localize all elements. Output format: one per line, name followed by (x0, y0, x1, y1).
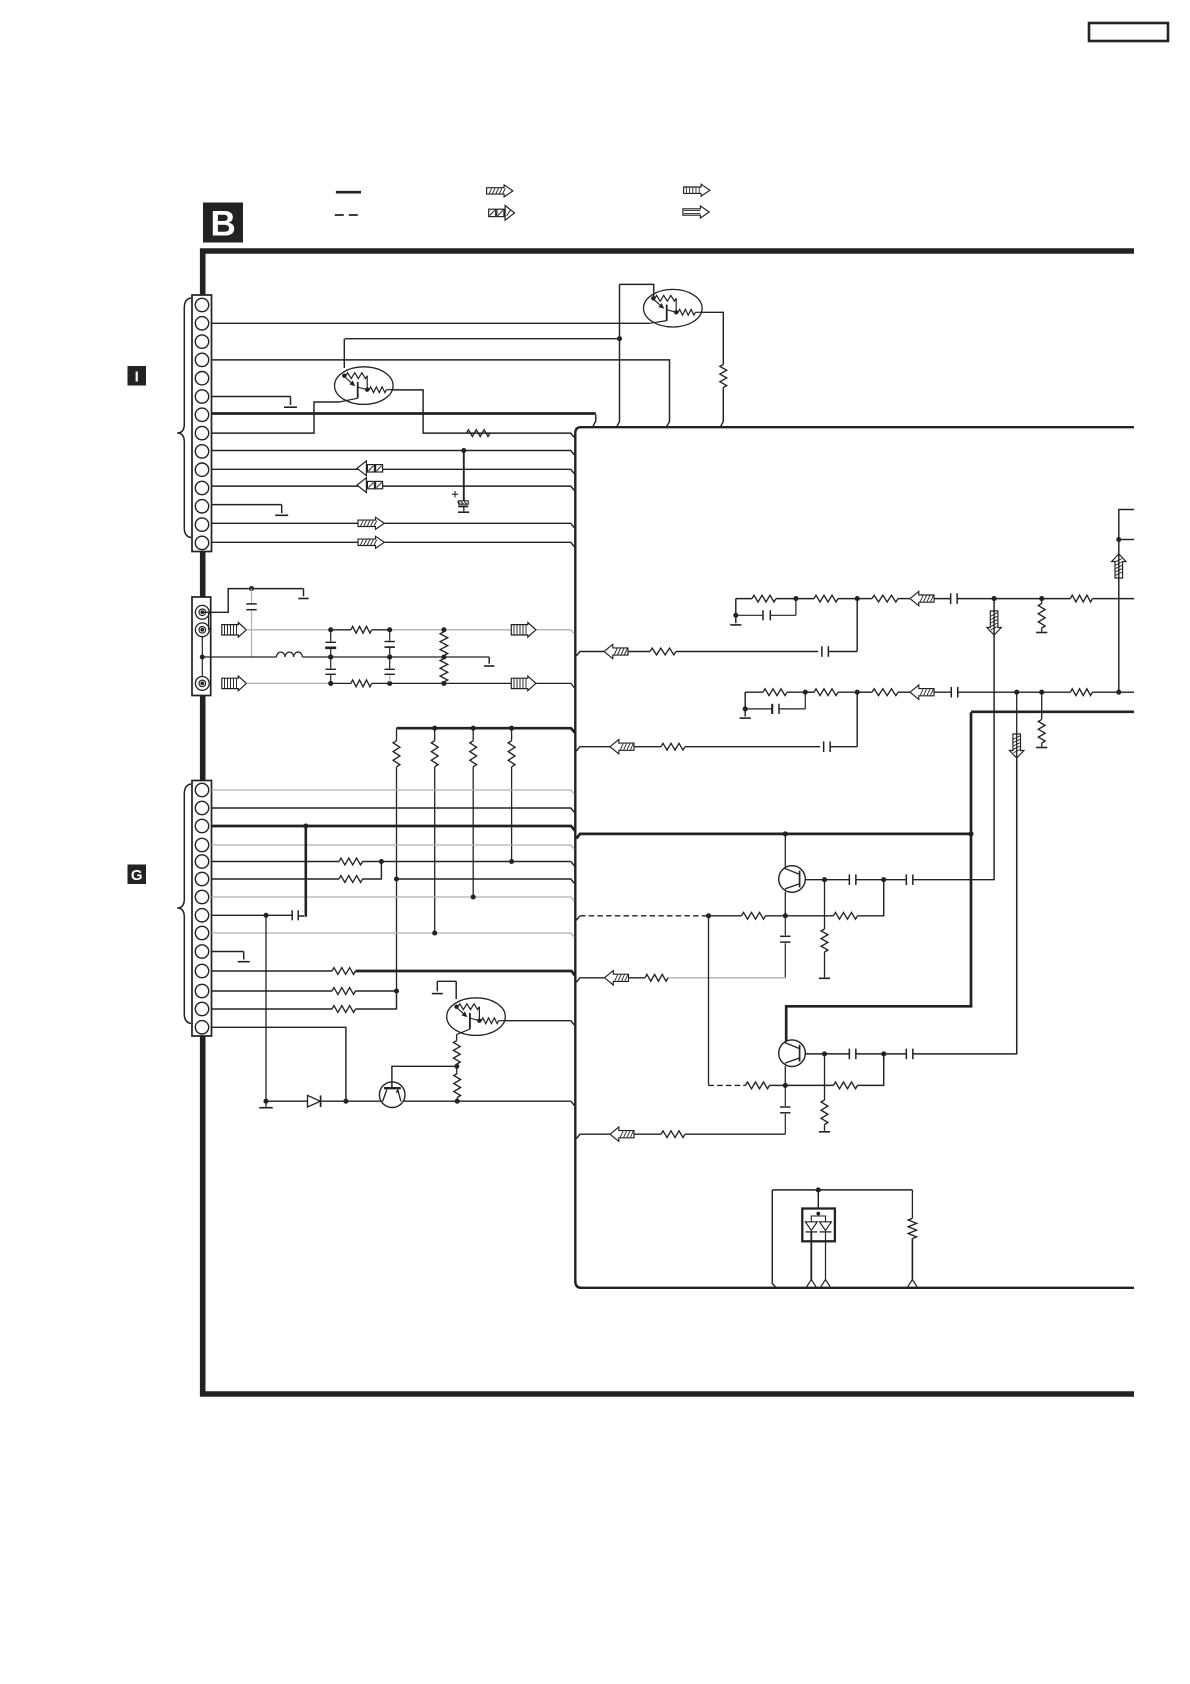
node ladder middle (441, 654, 446, 659)
node pin12/pin13/pull-up (394, 988, 399, 993)
arrowhead D3 lead (821, 1280, 830, 1287)
diode D3 lead (825, 1232, 827, 1280)
wire chain2 right (1042, 691, 1071, 693)
connector I pin 6 (195, 390, 208, 403)
connector I pin 12 (195, 500, 208, 513)
wire C17 to node (856, 1053, 884, 1055)
connector G pin 11 (195, 964, 208, 977)
wire Q1 riser into block (617, 284, 620, 426)
resistor on Q2 output row (467, 430, 491, 437)
node chain2 left (743, 706, 748, 711)
wire arrow to C9 (934, 598, 951, 600)
arrow on feedback row 2 (610, 1127, 634, 1141)
node mid/C3 (328, 654, 333, 659)
arrow on return row 2 (610, 740, 634, 754)
capacitor C2 (246, 589, 256, 657)
connector G pin 1 (195, 783, 208, 796)
inductor L1 (277, 652, 303, 657)
resistor R4b (834, 912, 858, 919)
wire chain1 exit (1092, 598, 1134, 600)
node Q6 base (783, 1083, 788, 1088)
jack pin tip (195, 605, 209, 619)
node chain2 d (1039, 690, 1044, 695)
wire Q5 collector (784, 834, 786, 867)
feedback row 2 wire (685, 1133, 785, 1135)
wire Q3 riser (455, 981, 457, 999)
node Q5 row b (881, 877, 886, 882)
resistor R2c (872, 595, 898, 602)
resistor R3c (872, 689, 898, 696)
resistor R3b (814, 689, 838, 696)
connector G pin 6 (195, 872, 208, 885)
arrow on pin13 wire (358, 517, 384, 529)
connector I pin 3 (195, 335, 208, 348)
wire chain2 b-c (857, 691, 910, 693)
resistor R3d (1070, 689, 1092, 696)
capacitor C5 (385, 631, 395, 656)
arrow on jack sleeve wire (222, 676, 247, 691)
node pin7 / pull-up 3 (471, 894, 476, 899)
node pin9 / pull-up 2 (432, 930, 437, 935)
svg-text:G: G (131, 867, 143, 884)
thick wire G pin11 into block (356, 971, 576, 976)
feedback row 2 from edge (576, 1134, 610, 1138)
node on jack internal link (200, 654, 205, 659)
svg-text:B: B (211, 205, 236, 244)
resistor on return row 2 (661, 743, 685, 750)
wire diode row segment 1 (266, 1100, 308, 1102)
arrow on chain1 (910, 591, 934, 605)
chassis symbol above Q3 (432, 981, 456, 993)
wire R6 lead (911, 1239, 913, 1280)
legend 00 arrow (signal route) (489, 206, 515, 221)
feedback row 1 grey wire (668, 977, 785, 979)
plus sign of C1 (452, 491, 458, 497)
wire Q1 output (702, 312, 723, 364)
digital transistor Q3 (447, 998, 506, 1036)
node thick net corner (968, 831, 973, 836)
capacitor C13 (824, 741, 831, 752)
wire chain2 exit (1092, 691, 1134, 693)
connector G pin 10 (195, 945, 208, 958)
wire riser (1118, 540, 1120, 693)
wire C14 to node (856, 879, 884, 881)
resistor R2d (1070, 595, 1092, 602)
node pin8 / vertical link (263, 913, 268, 918)
section label I (128, 366, 147, 386)
node chain1 d (1039, 596, 1044, 601)
connector G brace (177, 784, 191, 1024)
connector I pin 1 (195, 298, 208, 311)
wire C18 right (884, 759, 1017, 1054)
thick stub from G pin3 net (304, 826, 307, 917)
chassis symbol at I pin12 (275, 505, 288, 516)
link between base rows (708, 916, 710, 1086)
pull-up lead 4 (to G row 5) (511, 767, 513, 862)
arrow on ring row to block (511, 623, 536, 638)
connector I pin 2 (195, 317, 208, 330)
wire I pin9 into block (212, 451, 575, 455)
chain2 input elbow (745, 692, 763, 716)
chain1 input elbow (736, 599, 752, 624)
resistor ladder across jack rows (440, 632, 448, 682)
wire C10 to chain1 node b (828, 599, 857, 652)
wire jack sleeve row (246, 683, 574, 687)
wire diode block top row (772, 1189, 912, 1191)
wire Q5 base row (805, 879, 849, 881)
node Q5 row a (822, 877, 827, 882)
node chain1 left (733, 613, 738, 618)
transistor Q5 (779, 866, 806, 893)
node base row / link (706, 913, 711, 918)
wire chain2 drop upper (1016, 692, 1018, 1054)
node pin5/pair (379, 859, 384, 864)
elbow pin6 resistor to pin5 node (363, 862, 382, 880)
node mid/C5 (387, 654, 392, 659)
digital transistor Q2 (335, 367, 394, 405)
arrow on pin14 wire (358, 536, 384, 548)
resistor on G pin6 row (339, 876, 363, 883)
resistor R3e to ground (1038, 692, 1045, 746)
diode D2 (805, 1222, 817, 1232)
node mid/C4 (328, 654, 333, 659)
elbow pin13 to pin12 node (356, 991, 397, 1009)
connector I body (192, 295, 212, 552)
capacitor C9 (951, 593, 958, 604)
resistor on return row 1 (650, 648, 676, 655)
wire C9 to node c (957, 598, 994, 600)
wire I pin14 into block (212, 542, 575, 546)
wire I pin11 into block (212, 486, 575, 490)
svg-text:I: I (135, 369, 139, 386)
connector I pin 7 (195, 408, 208, 421)
section label G (128, 865, 147, 885)
capacitor C14 (849, 874, 856, 885)
resistor R6 (908, 1218, 916, 1238)
diode D2 lead (810, 1232, 812, 1280)
wire chain1 right (1042, 598, 1071, 600)
connector G pin 8 (195, 909, 208, 922)
wire Q1 emitter to pin2 row (650, 321, 667, 324)
wire G pin4 into block (212, 845, 575, 849)
capacitor C7 to thick net (292, 910, 304, 920)
wire jack ring row (246, 630, 574, 634)
connector I pin 13 (195, 518, 208, 531)
pull-up lead 1 (to G rows 6 and 12) (396, 767, 398, 991)
wire R1 into block (721, 388, 724, 427)
legend vertical-hatch arrow (signal route) (684, 184, 710, 196)
wire between Q3 resistors (456, 1064, 458, 1074)
wire Q3 emitter chain (457, 1029, 470, 1041)
thick emphasized net (576, 712, 1134, 1042)
wire I pin6 (212, 396, 291, 398)
connector G pin 7 (195, 890, 208, 903)
diode pair box (802, 1209, 835, 1242)
diode pair bracket (811, 1214, 825, 1222)
node thick net / Q5 collector (783, 831, 788, 836)
wire motor-transistor collector elbow (392, 1066, 457, 1088)
connector I pin 8 (195, 426, 208, 439)
wire arrow-resistor row1 (629, 977, 646, 979)
node diode row / Q3 chain (455, 1099, 460, 1104)
resistor R5b (834, 1082, 858, 1089)
connector I pin 5 (195, 372, 208, 385)
legend hatched arrow (signal route) (487, 185, 513, 197)
node Q5 base (783, 913, 788, 918)
ground below R2e (1036, 632, 1047, 634)
node riser (1116, 537, 1121, 542)
arrow on chain2 (910, 685, 934, 699)
wire G pin14 elbow down (212, 1027, 346, 1101)
diode D3 (820, 1222, 832, 1232)
legend solid-line symbol (336, 191, 361, 194)
capacitor C3 (325, 631, 336, 656)
capacitor C4 (326, 658, 336, 682)
resistor on ring row (351, 626, 372, 633)
node pin5 row / pull-up 4 (509, 859, 514, 864)
pull-up resistor bank (393, 728, 515, 767)
resistor below Q3 (lower) (454, 1074, 461, 1098)
resistor R2a (752, 595, 776, 602)
capacitor C19 below Q6 base (780, 1085, 790, 1134)
wire G pin5 into block (212, 862, 575, 866)
jack internal link pin1-pin2 (208, 612, 210, 630)
wire I pin13 into block (212, 523, 575, 527)
arrow on sleeve row to block (511, 676, 536, 691)
ground chain1 left (730, 624, 741, 626)
wire Q3 output into block (505, 1021, 574, 1025)
wire G pin1 into block (212, 790, 575, 794)
resistor on G pin13 row (332, 1006, 356, 1013)
node chain2 a (803, 690, 808, 695)
capacitor C15 (906, 874, 913, 885)
wire C15 right (884, 599, 994, 880)
wire arrow-resistor row2 (634, 1133, 661, 1135)
node mid/C6 (387, 654, 392, 659)
node ladder top (441, 627, 446, 632)
node Q6 row b (881, 1051, 886, 1056)
node jack tip wire / C2 (249, 586, 254, 591)
jack connector body (192, 597, 211, 696)
node supply bus 2 (432, 726, 437, 731)
00 arrow on pin11 wire (357, 478, 383, 493)
arrow on feedback row 1 (605, 971, 629, 985)
wire G pin2 into block (212, 808, 575, 812)
chassis symbol at G pin10 (238, 952, 250, 962)
wire diode row segment 2 (321, 1100, 381, 1102)
pull-up lead 2 (to G row 9) (434, 767, 436, 933)
vertical link pin8 to diode row (265, 915, 267, 1101)
wire G pin10 (212, 951, 244, 953)
resistor R2e to ground (1038, 599, 1045, 632)
connector G pin 5 (195, 855, 208, 868)
transistor Q4 (round) (379, 1082, 405, 1108)
arrow on jack ring wire (222, 623, 247, 638)
wire chain2 to node d (1017, 691, 1042, 693)
capacitor C11 (parallel) (745, 692, 805, 714)
connector G pin 12 (195, 984, 208, 997)
connector G pin 4 (195, 838, 208, 851)
wire G pin12 row (212, 990, 397, 992)
wire Q1 base top elbow (620, 284, 654, 297)
wire Q2 output to block (393, 390, 575, 438)
legend dashed-line symbol (335, 214, 360, 216)
connector I pin 10 (195, 463, 208, 476)
feedback row 1 from edge (576, 978, 604, 982)
resistor on G pin5 row (339, 858, 363, 865)
connector G pin 13 (195, 1002, 208, 1015)
dashed base feed row 1 (576, 916, 708, 920)
connector G pin 9 (195, 926, 208, 939)
wire I pin10 into block (212, 469, 575, 473)
wire I pin12 (212, 504, 282, 506)
ground below C1 (458, 511, 469, 513)
node Q6 row a (822, 1051, 827, 1056)
connector I pin 14 (195, 536, 208, 549)
resistor R3a (763, 689, 787, 696)
wire Q2 riser (343, 339, 345, 368)
jack internal link pin2-pin3 (201, 637, 203, 677)
resistor R4a (742, 912, 766, 919)
resistor R2b (814, 595, 838, 602)
circuit block outline (575, 427, 1134, 1288)
wire G pin13 row (212, 1008, 333, 1010)
connector I pin 9 (195, 445, 208, 458)
node chain2 b (855, 690, 860, 695)
node riser/collector line (617, 336, 622, 341)
connector G pin 14 (195, 1021, 208, 1034)
down arrow on chain2 drop (1010, 734, 1024, 758)
ground chain2 left (740, 717, 751, 719)
legend striped arrow (signal route) (683, 206, 709, 218)
wire R3a to node (787, 691, 805, 693)
connector G pin 3 (195, 819, 208, 832)
chassis symbol at I pin6 (284, 397, 297, 408)
ground below R3e (1036, 747, 1047, 749)
connector I pin 4 (195, 353, 208, 366)
capacitor C12 (951, 687, 958, 698)
wire diode block stem (817, 1190, 819, 1209)
digital transistor Q1 (644, 289, 703, 327)
wire arrow to C12 (934, 691, 951, 693)
resistor below Q6 row (821, 1054, 828, 1131)
capacitor C6 (385, 658, 395, 682)
resistor on G pin12 row (332, 988, 356, 995)
wire R2b-R2c (857, 598, 872, 600)
connector G pin 2 (195, 801, 208, 814)
node chain1 a (793, 596, 798, 601)
wire Q6 emitter (784, 1066, 786, 1085)
wire Q2 collector line to Q1 riser (345, 338, 620, 340)
page reference box (top right) (1089, 23, 1168, 41)
resistor on feedback row 1 (645, 974, 668, 981)
chassis symbol at jack tip wire (298, 589, 308, 599)
wire chain2 a-b (805, 691, 857, 693)
node ladder bottom (441, 681, 446, 686)
jack pin sleeve (195, 677, 209, 691)
resistor R1 below Q1 (720, 365, 727, 388)
wire base row 2 (770, 1084, 786, 1086)
resistor on G pin11 row (332, 968, 356, 975)
page frame border (203, 251, 1134, 1394)
wire I pin8 to Q2 emitter (212, 402, 340, 433)
resistor on sleeve row (351, 680, 372, 687)
transistor Q6 (779, 1040, 806, 1067)
wire base row 1 (709, 915, 786, 917)
wire lower resistor to diode row (456, 1098, 458, 1102)
wire jack tip (204, 589, 304, 613)
capacitor C18 (906, 1049, 913, 1060)
wire return row 1 (628, 651, 818, 653)
capacitor C16 below Q5 base (780, 916, 790, 978)
node supply bus 4 (509, 726, 514, 731)
node diode row / vertical link (263, 1099, 268, 1104)
wire base row 1 to C14 node (785, 880, 883, 916)
wire G pin7 into block (212, 897, 575, 901)
resistor below Q3 (upper) (453, 1041, 460, 1064)
wire base row 2 to C17 node (785, 1054, 883, 1086)
wire G pin8 row (212, 914, 293, 916)
wire G pin9 into block (212, 933, 575, 937)
node pin6 segment / pull-up 1 (394, 876, 399, 881)
wire return row 2 (634, 746, 820, 748)
wire I pin2 to Q1 emitter (212, 322, 650, 324)
wire R2a to node (776, 598, 796, 600)
node inside diode box (816, 1212, 820, 1216)
node diode block top (816, 1187, 821, 1192)
00 arrow on pin10 wire (357, 461, 383, 476)
wire resistor leg (911, 1190, 913, 1218)
wire diode row segment 3 (404, 1101, 575, 1105)
node on pin9 wire (461, 448, 466, 453)
node chain1 c (992, 596, 997, 601)
wire G pin6 row (212, 878, 340, 880)
jack pin ring (195, 623, 209, 637)
node sleeve/C4 (328, 681, 333, 686)
capacitor C10 (822, 646, 829, 657)
node chain2 c (1014, 690, 1019, 695)
thick wire G pin3 into block (212, 826, 576, 831)
wire G pin6 right segment into block (397, 879, 575, 883)
wire Q5 emitter (784, 892, 786, 916)
up arrow on riser (1112, 554, 1126, 578)
connector G body (192, 781, 212, 1037)
node chain2 e (1116, 690, 1121, 695)
ground below Q6 resistor (819, 1131, 830, 1133)
wire I pin4 into block (212, 360, 670, 426)
ground at diode row start (259, 1101, 273, 1108)
thick supply bus (397, 728, 576, 733)
pull-up lead 3 (to G row 7) (472, 767, 474, 897)
node chain1 b (855, 596, 860, 601)
capacitor C8 (parallel) (736, 599, 796, 621)
wire chain1 to node d (994, 598, 1042, 600)
ground below Q5 resistor (819, 977, 830, 979)
wire diode block left leg (772, 1190, 775, 1287)
arrow on return row 1 (604, 644, 628, 658)
node supply bus 3 (471, 726, 476, 731)
wire R2c to arrow (898, 598, 910, 600)
node ring/C5 (387, 627, 392, 632)
connector I brace (177, 298, 191, 538)
electrolytic capacitor C1 (457, 451, 468, 512)
arrowhead R6 lead (908, 1280, 917, 1287)
wire G pin11 row (212, 970, 333, 972)
thick wire I pin7 (212, 412, 596, 415)
node diode row / pin14 elbow (343, 1099, 348, 1104)
node between Q3 resistors (454, 1064, 459, 1069)
return row 2 from block edge (576, 747, 610, 751)
